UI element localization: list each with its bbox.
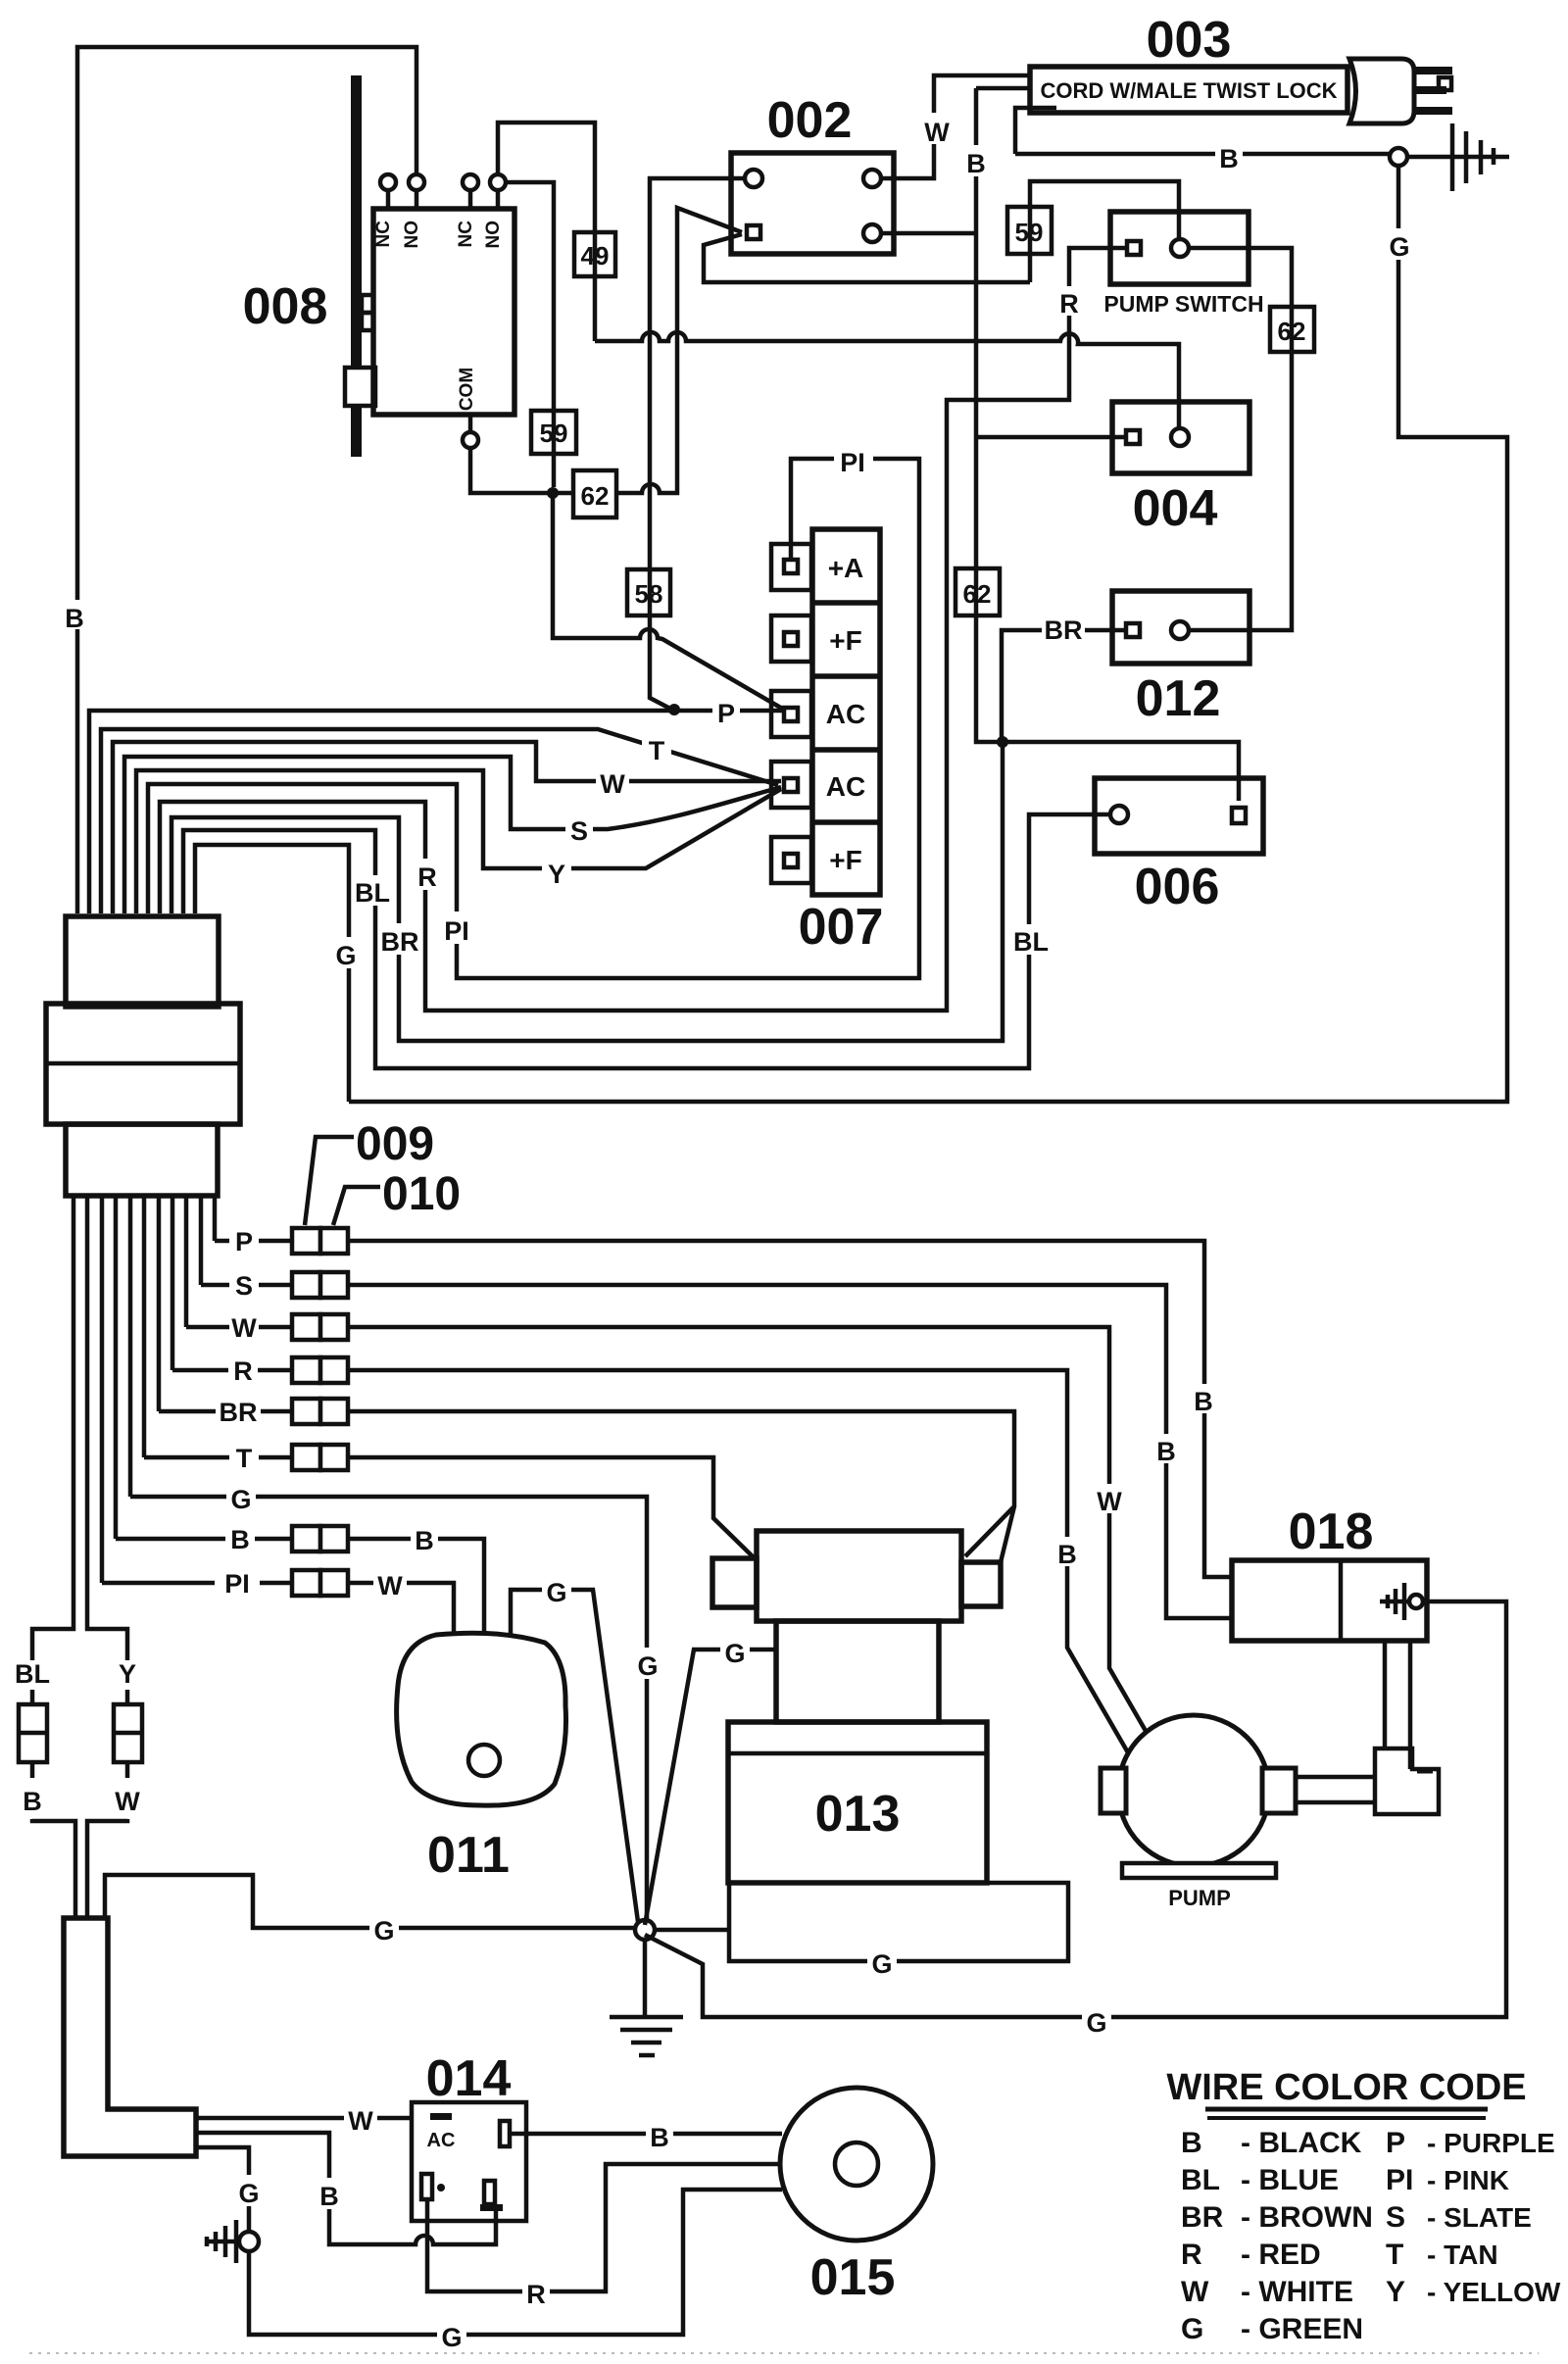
pin 004 left bbox=[1126, 430, 1140, 444]
svg-text:G: G bbox=[230, 1485, 251, 1514]
svg-text:G: G bbox=[546, 1578, 566, 1607]
svg-text:W: W bbox=[600, 769, 625, 799]
junction node A bbox=[547, 487, 559, 499]
svg-text:Y: Y bbox=[119, 1659, 136, 1689]
svg-text:006: 006 bbox=[1135, 859, 1220, 915]
box 004 bbox=[1112, 402, 1249, 473]
fuse row B bbox=[225, 1524, 348, 1554]
box 006 bbox=[1095, 778, 1263, 854]
wire T harness to 007 T4 bbox=[101, 729, 778, 913]
wire G from block top to 013 area bbox=[105, 1574, 636, 1945]
svg-text:009: 009 bbox=[356, 1118, 434, 1170]
svg-text:Y: Y bbox=[1386, 2276, 1405, 2308]
wire number box 59 bbox=[531, 411, 576, 454]
svg-text:G: G bbox=[373, 1916, 394, 1945]
svg-text:59: 59 bbox=[540, 419, 568, 448]
svg-text:- PINK: - PINK bbox=[1427, 2165, 1509, 2195]
wire junction to 013 bottom bbox=[654, 1883, 1068, 1979]
svg-text:R: R bbox=[526, 2280, 546, 2309]
float switch probe of 008 bbox=[345, 75, 375, 457]
wire number box 49 bbox=[574, 232, 615, 276]
earth ground symbol top right bbox=[1452, 123, 1494, 191]
box 003 cord w male twist lock bbox=[1030, 67, 1347, 113]
pin pump switch left bbox=[1127, 241, 1141, 255]
wire Y harness to 007 T4 bbox=[136, 770, 781, 913]
wire R 014 bottom-left pin to 015 bbox=[427, 2164, 782, 2309]
wire B 014 right pin to 015 bbox=[510, 2119, 782, 2152]
terminal T1 of 007 bbox=[771, 544, 811, 590]
wire number box 62 bbox=[573, 470, 616, 517]
pin NC2 of 008 bbox=[456, 174, 478, 247]
svg-text:012: 012 bbox=[1136, 670, 1221, 727]
svg-text:- BROWN: - BROWN bbox=[1241, 2201, 1373, 2234]
pump base plate bbox=[1122, 1863, 1276, 1878]
svg-text:PI: PI bbox=[444, 916, 469, 946]
wire Y fuse leads bbox=[87, 1656, 127, 1918]
fuse row T bbox=[229, 1443, 348, 1473]
svg-text:- RED: - RED bbox=[1241, 2239, 1321, 2271]
terminal strip 007 bbox=[812, 529, 880, 895]
pin 006 left bbox=[1110, 806, 1128, 823]
wire row R to pump bbox=[172, 1370, 1129, 1754]
pin 002 bottom-right bbox=[863, 224, 881, 242]
wire row G to central ground junction bbox=[130, 1481, 662, 1921]
pin 002 blade square bbox=[747, 225, 760, 239]
pipe pump to elbow bbox=[1296, 1777, 1375, 1802]
svg-text:AC: AC bbox=[826, 771, 865, 802]
svg-text:G: G bbox=[1181, 2313, 1203, 2345]
svg-text:62: 62 bbox=[963, 579, 992, 609]
pump right port bbox=[1262, 1768, 1296, 1813]
svg-text:NC: NC bbox=[456, 221, 476, 248]
svg-text:- GREEN: - GREEN bbox=[1241, 2313, 1363, 2345]
motor 013 bottom rect bbox=[728, 1722, 987, 1883]
svg-text:+F: +F bbox=[829, 625, 861, 656]
wire row PI to 011 bbox=[102, 1568, 454, 1633]
svg-text:010: 010 bbox=[382, 1168, 461, 1220]
terminal T3 of 007 bbox=[771, 691, 811, 737]
wire row W to pump bbox=[186, 1327, 1156, 1749]
svg-text:B: B bbox=[230, 1525, 250, 1554]
pin 012 left bbox=[1126, 623, 1140, 637]
svg-text:+A: +A bbox=[828, 553, 864, 583]
svg-text:PUMP: PUMP bbox=[1168, 1886, 1231, 1910]
terminal T4 of 007 bbox=[771, 762, 811, 808]
wire from 008 NO2 right down through 59 box bbox=[506, 182, 554, 487]
fuse row BR bbox=[216, 1397, 348, 1427]
svg-text:B: B bbox=[319, 2182, 339, 2211]
svg-text:BL: BL bbox=[15, 1659, 50, 1689]
fuse BL vertical bbox=[15, 1659, 50, 1816]
wire G harness to G bus bbox=[195, 845, 361, 1102]
svg-text:BR: BR bbox=[220, 1398, 258, 1427]
svg-text:- SLATE: - SLATE bbox=[1427, 2202, 1532, 2233]
pin NC1 of 008 bbox=[373, 174, 396, 247]
svg-text:R: R bbox=[1059, 289, 1079, 319]
wire B harness to 008 NO1 via page top bbox=[63, 47, 416, 913]
pin 012 right bbox=[1171, 621, 1189, 639]
pin 014 right bbox=[500, 2121, 510, 2146]
connector 001 harness middle block bbox=[46, 1004, 240, 1124]
connector block bottom-left bbox=[64, 1918, 196, 2156]
wire number box 59b bbox=[1007, 207, 1052, 254]
svg-text:W: W bbox=[377, 1571, 403, 1601]
wire row T to 013 funnel left bbox=[144, 1457, 756, 1559]
humidistat 011 bbox=[397, 1633, 566, 1805]
wire G 018 to bottom-right G run bbox=[645, 1601, 1506, 2038]
ground junction center bbox=[635, 1920, 655, 1940]
svg-text:BR: BR bbox=[381, 927, 419, 957]
svg-text:B: B bbox=[1194, 1387, 1213, 1416]
box pump switch bbox=[1103, 212, 1263, 317]
pin 014 bottom-right bbox=[480, 2181, 503, 2211]
svg-text:B: B bbox=[1219, 144, 1239, 173]
motor 015 bbox=[780, 2088, 933, 2241]
svg-text:- BLUE: - BLUE bbox=[1241, 2164, 1339, 2196]
svg-text:R: R bbox=[233, 1356, 253, 1386]
svg-text:W: W bbox=[115, 1787, 140, 1816]
svg-text:P: P bbox=[235, 1227, 253, 1256]
junction node BR drop bbox=[997, 736, 1008, 748]
pin 002 top-left bbox=[745, 170, 762, 187]
pin NO2 of 008 bbox=[483, 174, 506, 249]
page bottom scan artifact bbox=[29, 2352, 1539, 2354]
knob of 011 bbox=[468, 1745, 500, 1776]
svg-text:B: B bbox=[1057, 1540, 1077, 1569]
motor assembly 013 top rect bbox=[757, 1531, 961, 1621]
wire pump switch right pin feed through 59 box bbox=[1030, 181, 1179, 282]
svg-text:G: G bbox=[1389, 232, 1409, 262]
plug prong 2 with hook bbox=[1414, 77, 1451, 94]
plug prong 1 bbox=[1414, 67, 1452, 74]
svg-text:+F: +F bbox=[829, 845, 861, 875]
wire number box 62b bbox=[955, 568, 1000, 616]
wire B 002 to cord and down to 004 and 006 bbox=[880, 88, 1239, 801]
wire pump switch right to 62 box to 012 right pin bbox=[1188, 248, 1292, 630]
svg-text:S: S bbox=[235, 1271, 253, 1301]
svg-text:W: W bbox=[348, 2106, 373, 2136]
box 014 bbox=[412, 2102, 526, 2221]
pin NO1 of 008 bbox=[402, 174, 424, 249]
svg-text:W: W bbox=[1097, 1487, 1122, 1516]
svg-text:BR: BR bbox=[1045, 616, 1083, 645]
svg-text:NC: NC bbox=[373, 221, 394, 248]
fuse row W bbox=[229, 1312, 348, 1343]
wire number box 62c bbox=[1270, 307, 1314, 352]
pin 002 top-right bbox=[863, 170, 881, 187]
motor 013 middle rect bbox=[776, 1621, 939, 1722]
terminal T5 of 007 bbox=[771, 837, 811, 883]
svg-text:BL: BL bbox=[1013, 927, 1049, 957]
wire BL branch from harness bbox=[32, 1196, 73, 1656]
wire W block to 014 bbox=[196, 2102, 412, 2136]
ground symbol inside 018 bbox=[1380, 1583, 1423, 1620]
svg-text:62: 62 bbox=[581, 481, 610, 511]
svg-text:G: G bbox=[724, 1639, 745, 1668]
svg-text:BL: BL bbox=[355, 878, 390, 908]
svg-text:T: T bbox=[236, 1444, 253, 1473]
svg-text:PI: PI bbox=[224, 1569, 250, 1599]
svg-text:62: 62 bbox=[1278, 317, 1306, 346]
svg-text:W: W bbox=[231, 1313, 257, 1343]
connector 001 harness lower block bbox=[66, 1124, 218, 1196]
motor 013 right lug bbox=[961, 1562, 1001, 1606]
wire G ground junction down right side to G bus bbox=[349, 166, 1507, 1102]
svg-text:004: 004 bbox=[1133, 480, 1218, 537]
svg-text:- BLACK: - BLACK bbox=[1241, 2127, 1362, 2159]
wire stubs from harness bottom to fuse rows bbox=[102, 1196, 215, 1583]
wire PI harness to 007 T1 via loop bbox=[148, 443, 919, 978]
wire B cord ground lead bbox=[1015, 108, 1509, 173]
svg-text:003: 003 bbox=[1147, 12, 1232, 69]
wire W harness to 007 T4 bbox=[113, 742, 781, 913]
svg-text:014: 014 bbox=[426, 2050, 512, 2107]
svg-text:W: W bbox=[1181, 2276, 1209, 2308]
wire G 013 left to junction bbox=[645, 1635, 776, 1925]
ground junction top right bbox=[1390, 148, 1407, 166]
svg-text:015: 015 bbox=[810, 2249, 896, 2306]
svg-text:PUMP SWITCH: PUMP SWITCH bbox=[1103, 291, 1263, 317]
wire row S to 018 lower-left bbox=[201, 1285, 1232, 1618]
svg-text:P: P bbox=[1386, 2127, 1405, 2159]
ground junction bottom-left bbox=[239, 2232, 259, 2251]
svg-text:S: S bbox=[1386, 2201, 1405, 2234]
terminal T2 of 007 bbox=[771, 616, 811, 662]
junction node B bbox=[668, 704, 680, 715]
wire G block to ground junction bottom-left bbox=[196, 2147, 264, 2232]
pump circle bbox=[1118, 1715, 1269, 1866]
pin 006 right bbox=[1232, 808, 1246, 823]
svg-text:B: B bbox=[65, 604, 84, 633]
svg-text:BR: BR bbox=[1181, 2201, 1224, 2234]
wire W 002 to cord bbox=[880, 75, 1030, 178]
svg-text:CORD W/MALE TWIST LOCK: CORD W/MALE TWIST LOCK bbox=[1040, 78, 1337, 103]
pin pump switch right bbox=[1171, 239, 1189, 257]
svg-text:G: G bbox=[441, 2323, 462, 2352]
svg-text:R: R bbox=[1181, 2239, 1202, 2271]
svg-text:- PURPLE: - PURPLE bbox=[1427, 2128, 1555, 2158]
svg-text:- YELLOW: - YELLOW bbox=[1427, 2277, 1561, 2307]
connector 001 harness upper block bbox=[66, 916, 219, 1007]
wire R pump switch left to harness R bbox=[160, 248, 1126, 1010]
box 008 bbox=[373, 209, 514, 415]
svg-text:NO: NO bbox=[402, 221, 422, 249]
svg-text:WIRE COLOR CODE: WIRE COLOR CODE bbox=[1166, 2067, 1526, 2108]
svg-text:- TAN: - TAN bbox=[1427, 2240, 1498, 2270]
pump left port bbox=[1101, 1768, 1126, 1813]
svg-text:G: G bbox=[871, 1949, 892, 1979]
wire COM to junction bbox=[470, 448, 553, 493]
wire 018 bottom stubs to elbow bbox=[1385, 1641, 1410, 1769]
wire color code legend bbox=[1166, 2067, 1561, 2345]
wire from 008 NO2 up and right to 004 right pin bbox=[498, 123, 1179, 429]
fuse row S bbox=[229, 1270, 348, 1301]
svg-text:P: P bbox=[717, 699, 735, 728]
wire number box 58 bbox=[627, 569, 670, 616]
svg-text:B: B bbox=[415, 1526, 434, 1555]
plug body bbox=[1349, 59, 1414, 123]
wire G 011 to ground junction bbox=[511, 1590, 638, 1922]
svg-text:G: G bbox=[637, 1651, 658, 1681]
svg-text:R: R bbox=[417, 862, 437, 892]
svg-text:B: B bbox=[650, 2123, 669, 2152]
fuse row P bbox=[229, 1226, 348, 1256]
wire G bottom run to 015 bbox=[249, 2190, 782, 2352]
svg-text:002: 002 bbox=[767, 92, 853, 149]
svg-text:AC: AC bbox=[427, 2130, 456, 2151]
svg-text:S: S bbox=[570, 816, 588, 846]
fuse row R bbox=[228, 1355, 348, 1386]
svg-text:018: 018 bbox=[1289, 1503, 1374, 1560]
svg-text:T: T bbox=[649, 736, 665, 765]
svg-text:B: B bbox=[966, 149, 986, 178]
wire BR 012 left pin to harness BR bbox=[171, 613, 1126, 1041]
svg-text:COM: COM bbox=[457, 368, 477, 411]
wire row P to 018 upper-left bbox=[215, 1241, 1232, 1577]
wire junction to 62 box to 002 blade bbox=[553, 208, 742, 493]
wire junction down to 007 AC1 terminal bbox=[553, 493, 784, 710]
svg-text:007: 007 bbox=[799, 899, 884, 956]
fuse row PI bbox=[215, 1568, 348, 1599]
fuse Y vertical bbox=[114, 1659, 142, 1816]
svg-text:013: 013 bbox=[815, 1786, 901, 1843]
svg-text:59: 59 bbox=[1015, 218, 1044, 247]
svg-text:011: 011 bbox=[427, 1827, 510, 1884]
svg-text:AC: AC bbox=[826, 699, 865, 729]
wire B block to 014 bottom-right pin bbox=[196, 2133, 496, 2244]
earth ground symbol center bbox=[610, 1940, 683, 2055]
wire 002 pin1 down to 007 AC terminal bbox=[650, 178, 746, 709]
solenoid 018 bbox=[1232, 1560, 1427, 1641]
svg-text:NO: NO bbox=[483, 221, 504, 249]
wire S harness to 007 T4 bbox=[124, 757, 781, 913]
svg-text:PI: PI bbox=[1386, 2164, 1413, 2196]
wire row B to 011 bbox=[116, 1523, 484, 1633]
pin 014 bottom-left bbox=[421, 2174, 445, 2199]
box 002 bbox=[731, 153, 894, 254]
svg-text:Y: Y bbox=[548, 860, 565, 889]
svg-text:W: W bbox=[924, 118, 950, 147]
earth ground symbol bottom-left bbox=[206, 2220, 239, 2263]
svg-text:G: G bbox=[238, 2179, 259, 2208]
motor 013 left lug bbox=[712, 1558, 757, 1607]
wire row BR to 013 funnel bbox=[159, 1411, 1014, 1562]
svg-text:BL: BL bbox=[1181, 2164, 1220, 2196]
svg-text:PI: PI bbox=[840, 448, 865, 477]
plug prong 3 bbox=[1414, 107, 1452, 115]
svg-text:G: G bbox=[335, 941, 356, 970]
svg-text:008: 008 bbox=[243, 278, 328, 335]
wire P harness to 007 T3 bbox=[89, 695, 784, 913]
svg-text:B: B bbox=[1181, 2127, 1202, 2159]
svg-text:B: B bbox=[23, 1787, 42, 1816]
wire Y branch from harness bbox=[87, 1196, 127, 1656]
box 012 bbox=[1112, 591, 1249, 664]
svg-text:B: B bbox=[1156, 1437, 1176, 1466]
wire BL 006 left pin to harness BL bbox=[183, 814, 1111, 1068]
elbow fitting bbox=[1375, 1748, 1439, 1814]
pin COM of 008 bbox=[457, 368, 478, 448]
pin 004 right bbox=[1171, 428, 1189, 446]
svg-text:G: G bbox=[1086, 2008, 1106, 2038]
svg-text:58: 58 bbox=[635, 579, 663, 609]
pin AC of 014 bbox=[427, 2113, 456, 2151]
labels 009 010 with leaders bbox=[305, 1118, 461, 1225]
svg-text:T: T bbox=[1386, 2239, 1403, 2271]
wire BL fuse leads bbox=[32, 1656, 75, 1918]
wire 002 blade to pump switch chain bbox=[704, 234, 1030, 282]
svg-text:49: 49 bbox=[581, 241, 610, 271]
svg-text:- WHITE: - WHITE bbox=[1241, 2276, 1353, 2308]
